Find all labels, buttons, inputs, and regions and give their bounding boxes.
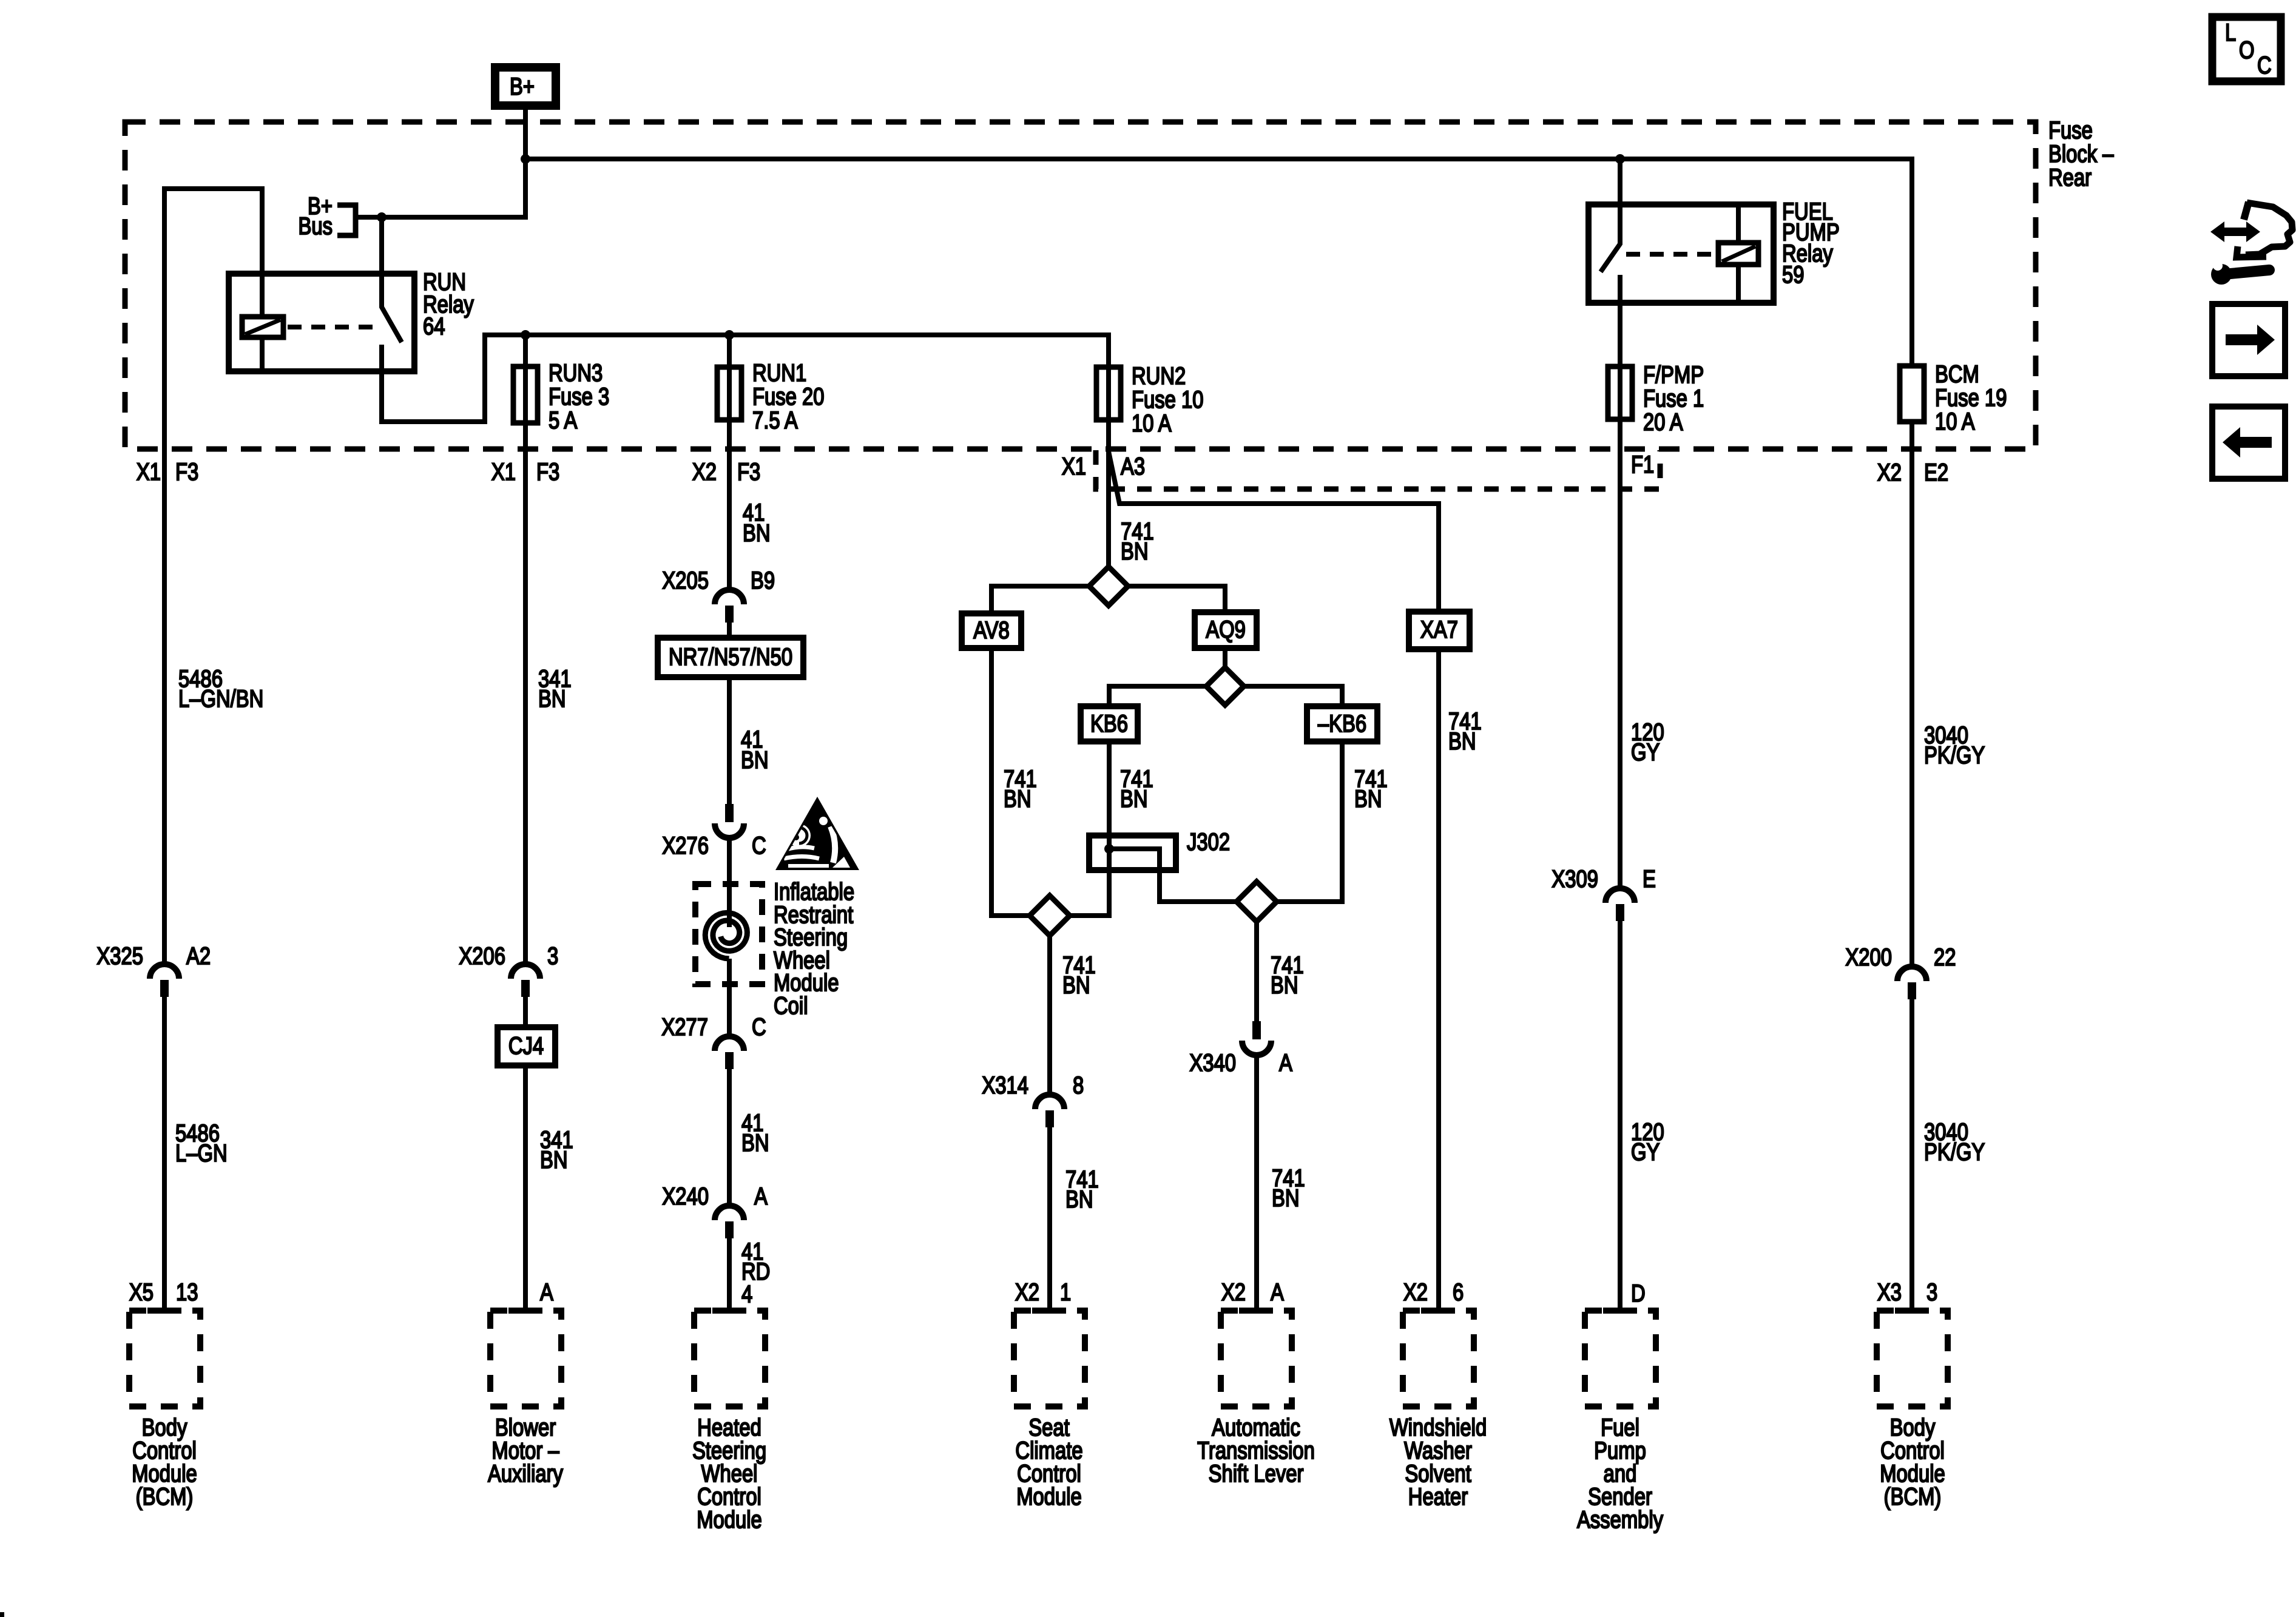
svg-text:X3: X3	[1877, 1278, 1902, 1306]
port label X1 F3 col2	[491, 458, 559, 485]
svg-text:A: A	[1279, 1049, 1292, 1076]
power symbol B+	[495, 67, 556, 106]
wire F/PMP output	[1618, 419, 1622, 888]
junction fuel pump feed	[1615, 154, 1625, 164]
connector box Automatic Transmission Shift Lever	[1221, 1311, 1292, 1406]
wire label 5486 L-GN/BN	[178, 665, 263, 712]
svg-text:BN: BN	[1004, 785, 1032, 812]
connector X276 pin C	[662, 804, 766, 859]
svg-text:BN: BN	[538, 685, 566, 712]
B+ Bus bracket terminal	[298, 192, 356, 240]
svg-text:X309: X309	[1551, 865, 1598, 893]
connector X325 pin A2	[96, 942, 211, 997]
wire AQ9 to D2	[1223, 648, 1227, 667]
svg-text:A3: A3	[1121, 453, 1145, 480]
RUN relay switch	[382, 274, 1109, 422]
warning triangle inflatable restraint	[775, 797, 859, 870]
svg-text:–KB6: –KB6	[1318, 710, 1366, 737]
pin label 4	[741, 1280, 752, 1308]
wire X277 to X240	[727, 1069, 732, 1206]
svg-text:BN: BN	[1120, 785, 1148, 812]
svg-text:Coil: Coil	[774, 992, 808, 1019]
svg-text:XA7: XA7	[1420, 616, 1458, 643]
legend box arrow left	[2212, 407, 2285, 479]
wire label 41 RD	[741, 1238, 770, 1285]
svg-text:X2: X2	[1403, 1278, 1428, 1306]
option box KB6	[1081, 706, 1138, 741]
svg-text:J302: J302	[1187, 828, 1230, 856]
port label F1 col5	[1631, 451, 1654, 478]
svg-text:22: 22	[1934, 944, 1956, 971]
svg-text:A: A	[754, 1183, 768, 1210]
connector box Seat Climate Control Module	[1014, 1311, 1085, 1406]
label Automatic Transmission Shift Lever	[1197, 1414, 1315, 1487]
option box AQ9	[1195, 612, 1257, 648]
svg-text:X1: X1	[491, 458, 516, 485]
pin label A blower	[540, 1278, 553, 1306]
wire label 5486 L-GN	[175, 1119, 228, 1167]
wire D2 to KB6	[1109, 686, 1206, 706]
svg-text:5 A: 5 A	[549, 407, 578, 434]
wire label 741 BN av8 branch	[1004, 765, 1037, 812]
svg-text:Module: Module	[697, 1506, 762, 1533]
connector box Body Control Module right	[1877, 1311, 1948, 1406]
wire label 741 BN below X340	[1272, 1164, 1305, 1212]
svg-text:8: 8	[1073, 1072, 1084, 1099]
wire D1 to AQ9	[1128, 586, 1225, 612]
wire XA7 to washer heater	[1436, 649, 1441, 1311]
label Inflatable Restraint Steering Wheel Module Coil	[774, 878, 854, 1019]
wire X205 to NR7 box	[727, 623, 732, 638]
svg-text:10 A: 10 A	[1935, 408, 1975, 435]
svg-text:A: A	[1271, 1278, 1284, 1306]
wire label 741 BN xa7 branch	[1448, 707, 1482, 755]
wire X340 to shift lever	[1254, 1055, 1259, 1311]
svg-text:GY: GY	[1631, 1138, 1660, 1166]
svg-text:C: C	[752, 832, 766, 859]
connector box Fuel Pump and Sender Assembly	[1585, 1311, 1656, 1406]
LOC legend box	[2212, 17, 2281, 81]
svg-text:20 A: 20 A	[1643, 408, 1683, 436]
svg-text:Shift Lever: Shift Lever	[1209, 1460, 1304, 1487]
stray mark bottom-left	[0, 1612, 4, 1617]
wire X309 to fuel pump	[1618, 921, 1622, 1311]
svg-text:E2: E2	[1924, 459, 1948, 486]
wire RUN3 fuse feed	[523, 335, 528, 366]
wire label 120 GY lower	[1631, 1118, 1664, 1166]
wire KB6 through J302 to D4	[1070, 741, 1109, 916]
wire RUN1 fuse feed	[727, 335, 732, 367]
svg-text:F1: F1	[1631, 451, 1654, 478]
svg-text:CJ4: CJ4	[508, 1032, 544, 1059]
fuse block label "Fuse Block - Rear"	[2048, 116, 2114, 191]
fuse RUN1 Fuse20 7.5A	[717, 359, 824, 434]
svg-text:D: D	[1631, 1280, 1646, 1307]
wire label 41 BN above X240	[741, 1109, 769, 1156]
svg-text:BN: BN	[1121, 538, 1149, 565]
wire D2 to -KB6	[1244, 686, 1342, 706]
svg-text:L–GN/BN: L–GN/BN	[178, 685, 263, 712]
port label X1 A3 col4	[1062, 453, 1145, 480]
wire RUN2 output	[1106, 420, 1111, 567]
svg-text:PK/GY: PK/GY	[1924, 1138, 1985, 1166]
svg-text:GY: GY	[1631, 738, 1660, 766]
svg-text:64: 64	[423, 312, 445, 340]
svg-text:10 A: 10 A	[1132, 410, 1172, 437]
svg-text:B+: B+	[510, 73, 535, 100]
svg-text:BN: BN	[540, 1146, 568, 1173]
svg-text:(BCM): (BCM)	[1884, 1483, 1942, 1510]
port label X2 F3 col3	[692, 458, 760, 485]
svg-text:X1: X1	[1062, 453, 1086, 480]
svg-text:3: 3	[547, 942, 558, 970]
svg-text:Rear: Rear	[2048, 164, 2092, 191]
connector box Body Control Module left	[129, 1311, 200, 1406]
wire X240 to module	[727, 1238, 732, 1311]
option box NR7/N57/N50	[658, 638, 803, 677]
fuse RUN2 Fuse10 10A	[1096, 362, 1203, 437]
svg-text:F3: F3	[737, 458, 760, 485]
svg-text:4: 4	[741, 1280, 752, 1308]
svg-text:PK/GY: PK/GY	[1924, 741, 1985, 769]
svg-text:F3: F3	[536, 458, 559, 485]
label Body Control Module (BCM) right	[1880, 1414, 1945, 1510]
wire X200 to BCM right	[1909, 999, 1914, 1311]
svg-text:7.5 A: 7.5 A	[752, 407, 798, 434]
wire NR7 to X276	[727, 677, 732, 804]
pin label D fuel pump	[1631, 1280, 1646, 1307]
wire -KB6 to D3	[1277, 741, 1342, 902]
fuse block - rear dashed enclosure	[125, 122, 2036, 449]
wire label 741 BN kb6 branch	[1120, 765, 1153, 812]
svg-text:1: 1	[1060, 1278, 1071, 1306]
FUEL PUMP relay coil	[1718, 204, 1758, 303]
svg-text:(BCM): (BCM)	[136, 1483, 194, 1510]
svg-text:E: E	[1643, 865, 1656, 893]
connector X340 pin A	[1189, 1021, 1292, 1076]
FUEL PUMP relay switch	[1601, 159, 1620, 303]
svg-text:O: O	[2239, 36, 2255, 64]
relay K59 FUEL PUMP box	[1589, 198, 1840, 303]
RUN relay actuation dashed link	[288, 325, 376, 329]
wire label 741 BN run2	[1121, 518, 1154, 565]
label Seat Climate Control Module	[1015, 1414, 1082, 1510]
wire BCM19 output	[1909, 422, 1914, 967]
wire label 341 BN upper	[538, 665, 572, 712]
label Heated Steering Wheel Control Module	[692, 1414, 766, 1533]
svg-text:BN: BN	[1354, 785, 1382, 812]
splice diamond D3	[1237, 882, 1277, 922]
svg-text:3: 3	[1926, 1278, 1937, 1306]
wire label 120 GY upper	[1631, 718, 1664, 766]
svg-text:X277: X277	[661, 1013, 708, 1041]
pin label X2 6 washer	[1403, 1278, 1464, 1306]
option box XA7	[1409, 612, 1470, 649]
pin label X5 13	[129, 1278, 198, 1306]
svg-text:X2: X2	[1015, 1278, 1039, 1306]
wire label 741 BN above X314	[1062, 951, 1096, 999]
splice diamond D4	[1030, 896, 1070, 936]
splice diamond D1	[1089, 567, 1128, 606]
svg-text:BN: BN	[1271, 971, 1298, 999]
wire B+ feed down and main bus	[358, 110, 1912, 366]
dashed box inflatable restraint coil	[695, 884, 762, 984]
pin label X2 A shift	[1221, 1278, 1285, 1306]
wire X325 to BCM	[162, 997, 167, 1311]
wire CJ4 to blower	[523, 1065, 528, 1311]
svg-text:6: 6	[1453, 1278, 1464, 1306]
junction RUN3 tap	[521, 330, 530, 340]
fuse F/PMP Fuse1 20A	[1608, 303, 1704, 436]
label Body Control Module (BCM) left	[132, 1414, 197, 1510]
connector box Windshield Washer Solvent Heater	[1403, 1311, 1474, 1406]
svg-text:X340: X340	[1189, 1049, 1236, 1076]
junction B+ bus	[521, 154, 530, 164]
svg-text:AQ9: AQ9	[1206, 616, 1246, 643]
svg-text:X240: X240	[662, 1183, 709, 1210]
svg-text:X325: X325	[96, 942, 143, 970]
svg-text:BN: BN	[741, 746, 769, 774]
svg-text:Bus: Bus	[298, 212, 333, 240]
wire label 341 BN lower	[540, 1126, 573, 1173]
inner connector dashed box A3-F1	[1096, 450, 1660, 489]
connector X314 pin 8	[982, 1072, 1084, 1127]
svg-text:X314: X314	[982, 1072, 1028, 1099]
svg-text:X1: X1	[137, 458, 161, 485]
svg-text:X2: X2	[1221, 1278, 1246, 1306]
wire label 741 BN above X340	[1271, 951, 1304, 999]
port label X1 F3 col1	[137, 458, 198, 485]
wire coil to X277	[727, 959, 732, 1036]
svg-text:Heater: Heater	[1408, 1483, 1468, 1510]
fuse RUN3 Fuse3 5A	[513, 359, 609, 434]
wire RUN3 output	[523, 423, 528, 964]
wire label 3040 PK/GY lower	[1924, 1118, 1985, 1166]
option box -KB6	[1307, 706, 1377, 741]
svg-text:BN: BN	[743, 519, 771, 547]
connector X206 pin 3	[459, 942, 558, 997]
junction RUN1 tap	[724, 330, 734, 340]
wire coil to X1-F3 output	[164, 189, 262, 964]
svg-text:F3: F3	[175, 458, 198, 485]
svg-text:X2: X2	[1877, 459, 1902, 486]
label Fuel Pump and Sender Assembly	[1577, 1414, 1664, 1533]
wire RUN1 output	[727, 420, 732, 590]
connector X309 pin E	[1551, 865, 1655, 921]
svg-text:Assembly: Assembly	[1577, 1506, 1664, 1533]
wire D4 to X314	[1047, 936, 1052, 1095]
wire X206 to CJ4	[523, 997, 528, 1027]
svg-text:13: 13	[176, 1278, 198, 1306]
svg-text:Auxiliary: Auxiliary	[488, 1460, 564, 1487]
wire label 741 BN -kb6 branch	[1354, 765, 1388, 812]
svg-text:X200: X200	[1845, 944, 1892, 971]
svg-text:BN: BN	[1448, 727, 1476, 755]
svg-text:KB6: KB6	[1090, 710, 1128, 737]
svg-text:C: C	[2257, 52, 2272, 79]
junction B+ bus bracket	[377, 212, 387, 222]
wire label 41 BN above X276	[741, 726, 769, 774]
svg-text:L–GN: L–GN	[175, 1139, 228, 1167]
wire X314 to seat module	[1047, 1127, 1052, 1311]
fuse BCM Fuse19 10A	[1900, 360, 2007, 435]
connector box Blower Motor Auxiliary	[490, 1311, 561, 1406]
svg-text:BN: BN	[1062, 971, 1090, 999]
svg-text:BN: BN	[741, 1129, 769, 1156]
splice pack J302	[1089, 828, 1237, 902]
service icon car with arrow and wrench	[2210, 202, 2292, 285]
svg-text:BN: BN	[1272, 1184, 1300, 1212]
svg-text:X206: X206	[459, 942, 505, 970]
svg-text:Module: Module	[1016, 1483, 1082, 1510]
wire label 41 BN above X205	[743, 499, 771, 547]
svg-text:X2: X2	[692, 458, 717, 485]
label Windshield Washer Solvent Heater	[1389, 1414, 1487, 1510]
svg-text:L: L	[2225, 19, 2236, 46]
port label X2 E2 col6	[1877, 459, 1948, 486]
svg-text:A2: A2	[186, 942, 211, 970]
connector X200 pin 22	[1845, 944, 1956, 999]
relay K64 RUN box	[229, 268, 474, 371]
wire D3 to X340	[1254, 922, 1259, 1021]
connector X205 pin B9	[662, 567, 775, 623]
svg-text:AV8: AV8	[973, 616, 1010, 644]
wire X276 to coil	[727, 838, 732, 927]
connector box Heated Steering Wheel Control Module	[694, 1311, 765, 1406]
clockspring coil spiral	[705, 913, 747, 959]
svg-text:59: 59	[1782, 261, 1804, 288]
svg-text:X276: X276	[662, 832, 709, 859]
label Blower Motor - Auxiliary	[488, 1414, 564, 1487]
svg-text:X5: X5	[129, 1278, 154, 1306]
connector X240 pin A	[662, 1183, 768, 1238]
svg-text:NR7/N57/N50: NR7/N57/N50	[669, 643, 792, 670]
wire branch to XA7	[1109, 451, 1439, 612]
wire D1 to AV8	[991, 586, 1089, 613]
splice diamond D2	[1206, 667, 1244, 705]
svg-text:C: C	[752, 1013, 766, 1041]
FUEL PUMP relay actuation dashed link	[1626, 252, 1715, 257]
svg-text:A: A	[540, 1278, 553, 1306]
option box AV8	[962, 613, 1021, 648]
svg-text:BN: BN	[1065, 1186, 1093, 1213]
option box CJ4	[498, 1027, 555, 1065]
svg-text:X205: X205	[662, 567, 709, 594]
wire label 741 BN below X314	[1065, 1166, 1099, 1213]
wire AV8 to D4	[991, 648, 1030, 916]
pin label X2 1 seat	[1015, 1278, 1071, 1306]
RUN relay coil	[242, 274, 283, 371]
wire label 3040 PK/GY upper	[1924, 721, 1985, 769]
connector X277 pin C	[661, 1013, 766, 1069]
legend box arrow right	[2212, 304, 2285, 376]
svg-text:B9: B9	[751, 567, 775, 594]
pin label X3 3	[1877, 1278, 1937, 1306]
